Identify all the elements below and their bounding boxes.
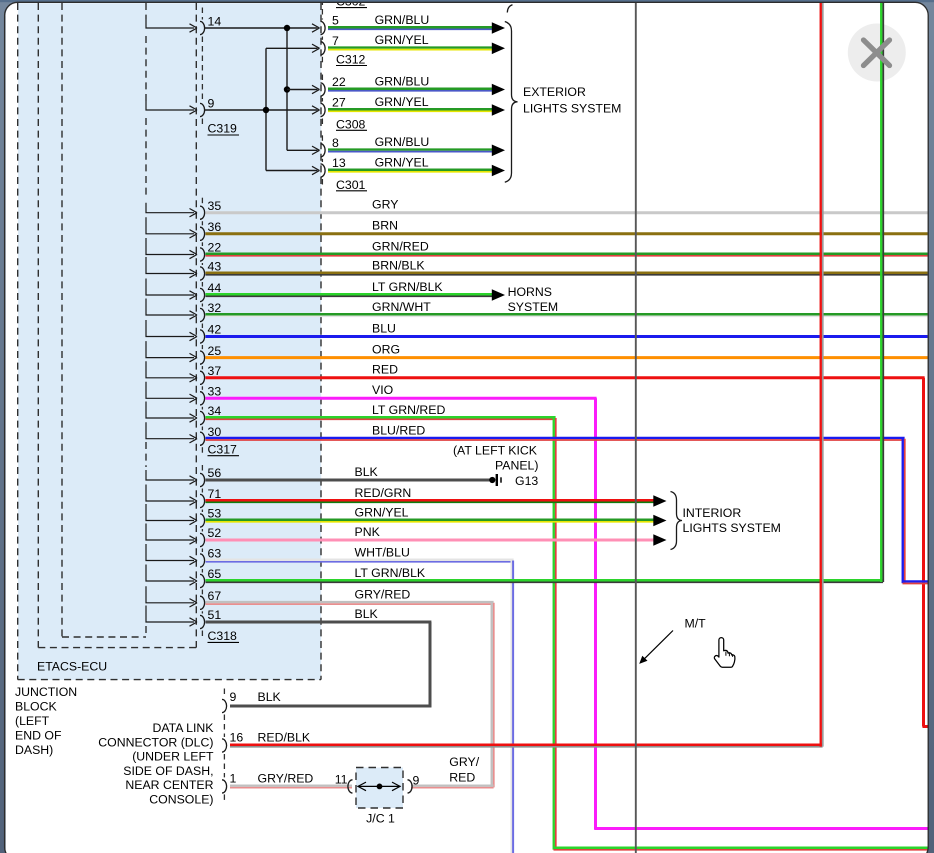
svg-text:LT GRN/BLK: LT GRN/BLK: [372, 280, 443, 294]
svg-text:LT GRN/BLK: LT GRN/BLK: [355, 566, 426, 580]
svg-text:GRN/RED: GRN/RED: [372, 239, 429, 253]
svg-text:37: 37: [208, 364, 222, 378]
svg-text:HORNS: HORNS: [508, 285, 552, 299]
svg-text:9: 9: [208, 96, 215, 110]
svg-text:CONNECTOR (DLC): CONNECTOR (DLC): [98, 735, 213, 749]
svg-text:52: 52: [208, 526, 222, 540]
svg-text:BLK: BLK: [355, 607, 379, 621]
svg-text:LT GRN/RED: LT GRN/RED: [372, 403, 445, 417]
svg-text:RED: RED: [372, 363, 398, 377]
svg-text:C318: C318: [208, 629, 238, 643]
svg-text:14: 14: [208, 14, 222, 28]
svg-text:RED/BLK: RED/BLK: [258, 731, 311, 745]
svg-text:13: 13: [332, 156, 346, 170]
svg-text:BLU/RED: BLU/RED: [372, 424, 425, 438]
svg-text:25: 25: [208, 344, 222, 358]
svg-text:END OF: END OF: [15, 729, 62, 743]
svg-text:35: 35: [208, 199, 222, 213]
svg-text:GRY: GRY: [372, 198, 398, 212]
svg-text:INTERIOR: INTERIOR: [683, 506, 742, 520]
svg-text:27: 27: [332, 96, 346, 110]
svg-text:BLK: BLK: [355, 465, 379, 479]
svg-text:42: 42: [208, 323, 222, 337]
svg-text:G13: G13: [515, 474, 538, 488]
svg-text:33: 33: [208, 385, 222, 399]
svg-text:GRN/WHT: GRN/WHT: [372, 300, 431, 314]
svg-text:GRN/BLU: GRN/BLU: [375, 135, 430, 149]
svg-text:C319: C319: [208, 122, 238, 136]
svg-text:GRN/BLU: GRN/BLU: [375, 74, 430, 88]
svg-text:ORG: ORG: [372, 342, 400, 356]
svg-text:JUNCTION: JUNCTION: [15, 685, 77, 699]
svg-text:GRY/RED: GRY/RED: [258, 772, 314, 786]
svg-text:BLU: BLU: [372, 321, 396, 335]
svg-text:CONSOLE): CONSOLE): [149, 793, 213, 807]
svg-text:EXTERIOR: EXTERIOR: [523, 85, 586, 99]
svg-text:(UNDER LEFT: (UNDER LEFT: [132, 750, 214, 764]
svg-text:56: 56: [208, 466, 222, 480]
svg-text:VIO: VIO: [372, 383, 393, 397]
svg-text:BLOCK: BLOCK: [15, 700, 57, 714]
svg-text:GRN/BLU: GRN/BLU: [375, 13, 430, 27]
svg-text:NEAR CENTER: NEAR CENTER: [125, 778, 213, 792]
svg-text:5: 5: [332, 14, 339, 28]
svg-text:GRN/YEL: GRN/YEL: [375, 33, 429, 47]
svg-text:(LEFT: (LEFT: [15, 714, 50, 728]
svg-text:ETACS-ECU: ETACS-ECU: [37, 660, 107, 674]
svg-text:GRY/: GRY/: [449, 755, 479, 769]
svg-text:LIGHTS SYSTEM: LIGHTS SYSTEM: [683, 521, 781, 535]
svg-text:GRN/YEL: GRN/YEL: [375, 95, 429, 109]
svg-text:9: 9: [230, 690, 237, 704]
svg-text:GRY/RED: GRY/RED: [355, 588, 411, 602]
svg-text:11: 11: [335, 773, 348, 787]
svg-text:SYSTEM: SYSTEM: [508, 300, 559, 314]
svg-text:GRN/YEL: GRN/YEL: [375, 155, 429, 169]
svg-text:DATA LINK: DATA LINK: [152, 721, 214, 735]
svg-text:PNK: PNK: [355, 525, 381, 539]
svg-text:LIGHTS SYSTEM: LIGHTS SYSTEM: [523, 102, 621, 116]
svg-text:DASH): DASH): [15, 743, 53, 757]
svg-text:BRN/BLK: BRN/BLK: [372, 258, 425, 272]
svg-text:M/T: M/T: [685, 617, 707, 631]
svg-text:J/C 1: J/C 1: [366, 811, 395, 825]
svg-text:PANEL): PANEL): [495, 459, 539, 473]
svg-text:7: 7: [332, 34, 339, 48]
svg-text:16: 16: [230, 731, 244, 745]
svg-text:RED: RED: [449, 770, 475, 784]
svg-text:51: 51: [208, 608, 222, 622]
svg-text:(AT LEFT KICK: (AT LEFT KICK: [453, 444, 538, 458]
svg-text:C317: C317: [208, 442, 238, 456]
svg-text:C308: C308: [336, 117, 366, 131]
svg-text:BRN: BRN: [372, 219, 398, 233]
svg-text:8: 8: [332, 136, 339, 150]
svg-text:9: 9: [413, 774, 420, 788]
svg-text:WHT/BLU: WHT/BLU: [355, 545, 410, 559]
svg-text:C312: C312: [336, 53, 366, 67]
svg-text:SIDE OF DASH,: SIDE OF DASH,: [123, 764, 213, 778]
svg-text:GRN/YEL: GRN/YEL: [355, 505, 409, 519]
svg-text:C301: C301: [336, 178, 366, 192]
svg-text:RED/GRN: RED/GRN: [355, 486, 412, 500]
svg-text:36: 36: [208, 220, 222, 234]
svg-text:1: 1: [230, 772, 237, 786]
svg-text:22: 22: [332, 75, 346, 89]
svg-text:BLK: BLK: [258, 690, 282, 704]
